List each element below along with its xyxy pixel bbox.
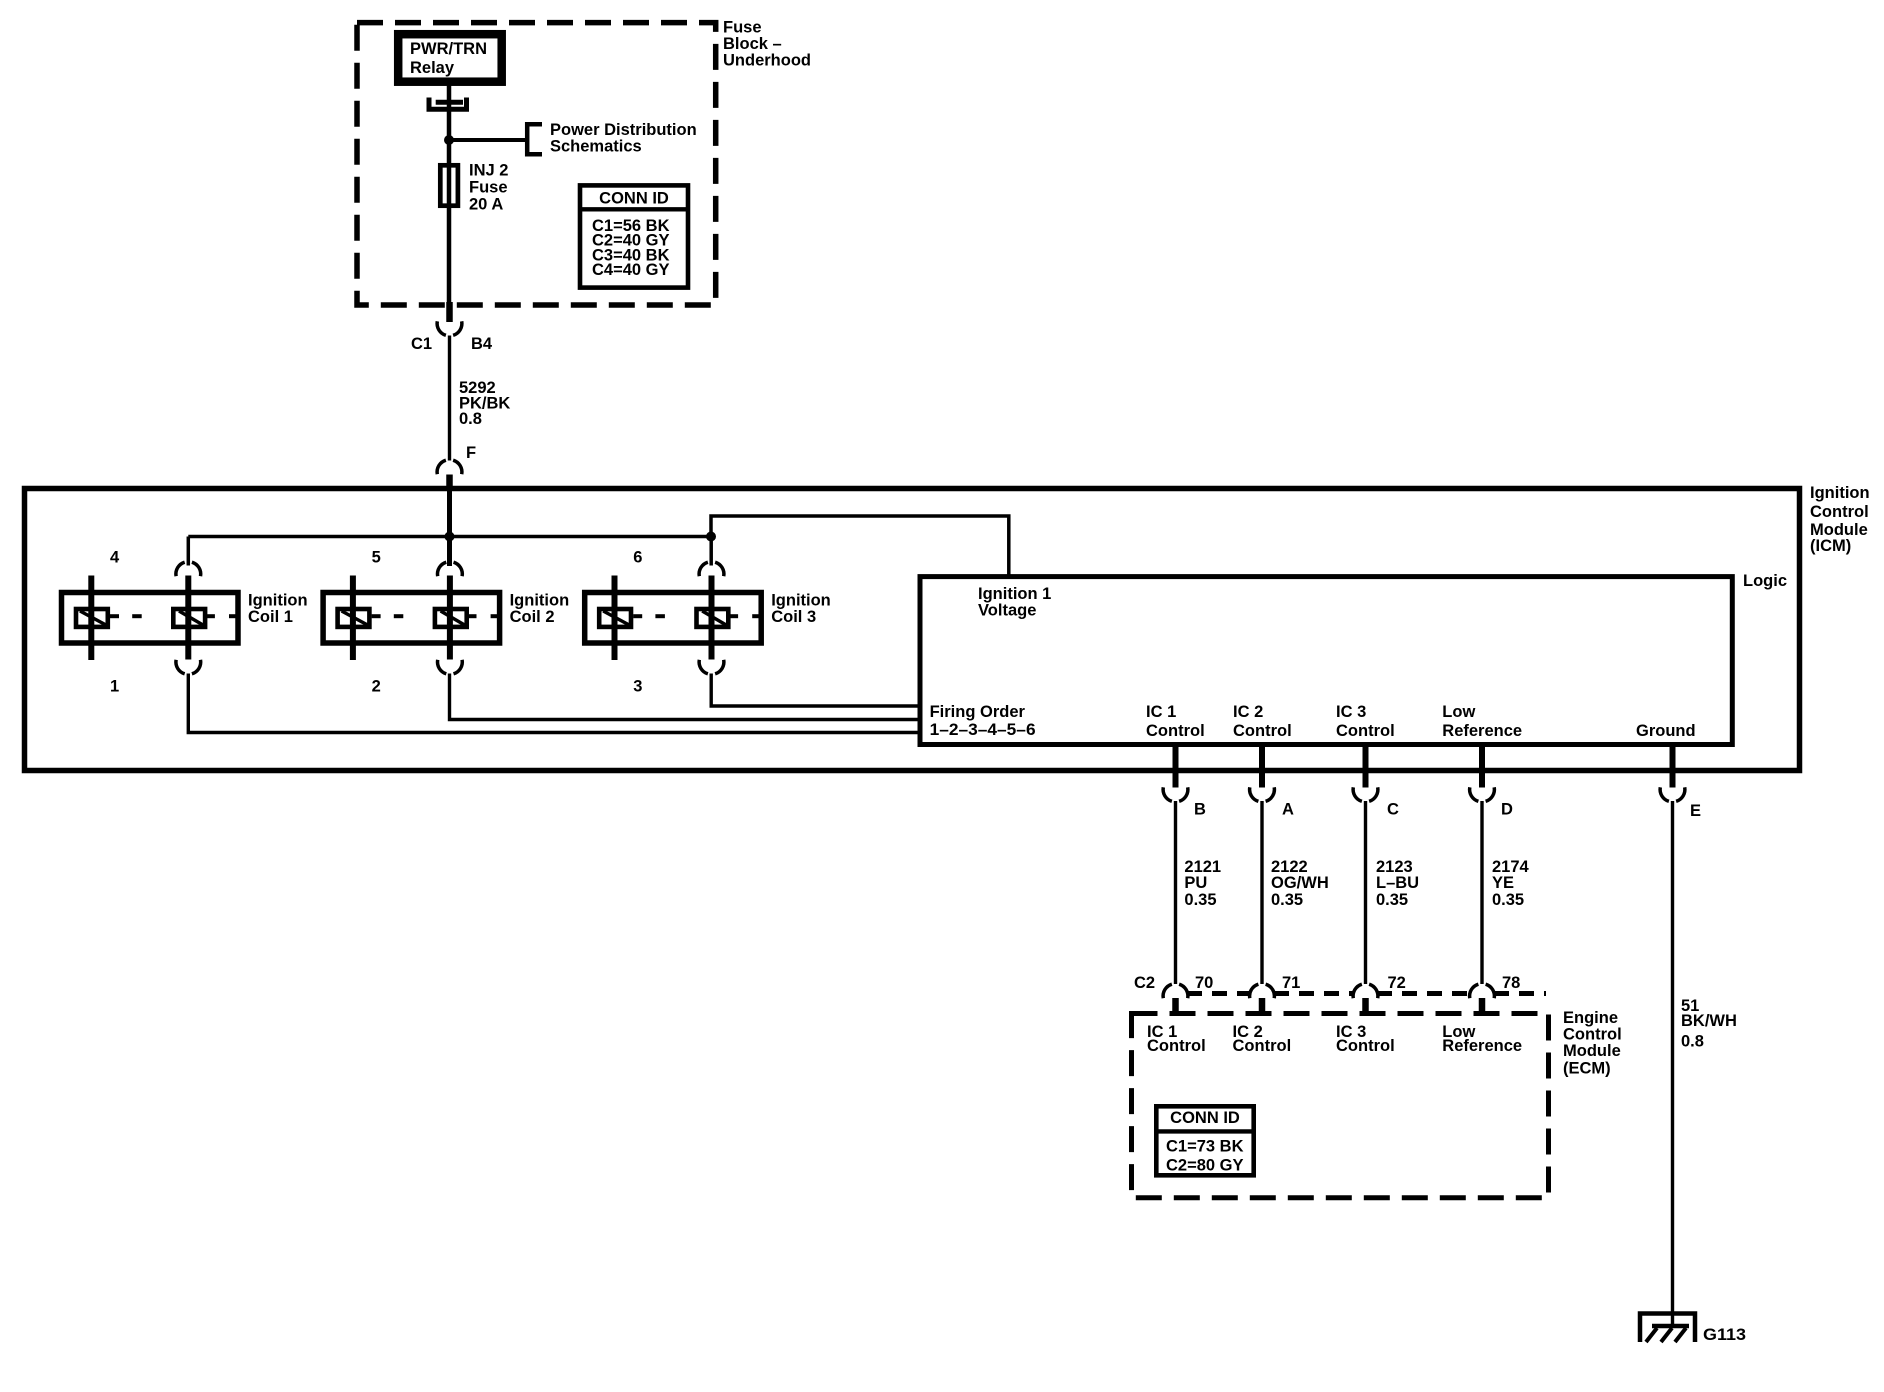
- coil 3 right pin terminal: [709, 576, 715, 660]
- coil 1 right pin terminal: [185, 576, 191, 660]
- connector C2 pin 70: [1163, 984, 1188, 998]
- node: junction at relay feed: [444, 135, 454, 145]
- svg-text:PWR/TRN: PWR/TRN: [410, 40, 487, 58]
- wire: ignition 1 voltage sense to logic: [711, 516, 1009, 577]
- svg-text:INJ 2: INJ 2: [469, 162, 508, 180]
- connector C2 pin 78: [1470, 984, 1495, 998]
- svg-text:F: F: [466, 444, 476, 462]
- ignition control module (ICM) enclosure: [25, 489, 1800, 771]
- svg-text:1: 1: [110, 678, 119, 696]
- wire: ignition feed inside ICM: [447, 486, 452, 566]
- svg-text:6: 6: [633, 549, 642, 567]
- svg-text:Control: Control: [1810, 503, 1869, 521]
- svg-text:Reference: Reference: [1442, 722, 1522, 740]
- node: feeder/bus junction: [445, 532, 455, 542]
- ground G113: [1640, 1314, 1695, 1343]
- wire: coil supply bus: [188, 535, 711, 538]
- svg-text:70: 70: [1195, 974, 1213, 992]
- off-page reference bracket: Power Distribution Schematics: [527, 124, 542, 154]
- svg-text:3: 3: [633, 678, 642, 696]
- connector pin E (ICM): [1670, 745, 1676, 788]
- wire: coil 2 to firing order: [450, 674, 921, 720]
- svg-text:IC 3: IC 3: [1336, 703, 1366, 721]
- wire: coil 1 to firing order: [188, 674, 920, 733]
- coil 2 left pin terminal: [350, 576, 356, 661]
- svg-text:Ignition: Ignition: [1810, 484, 1870, 502]
- svg-text:72: 72: [1388, 974, 1406, 992]
- svg-text:71: 71: [1282, 974, 1300, 992]
- relay K: PWR/TRN Relay: [398, 34, 502, 81]
- coil 2 top connector: [438, 562, 463, 576]
- wire 2123 L–BU 0.35: [1364, 801, 1367, 984]
- svg-text:0.8: 0.8: [1681, 1032, 1704, 1050]
- wire: relay to junction: [447, 82, 452, 140]
- coil 3 bottom connector: [699, 660, 724, 674]
- svg-text:YE: YE: [1492, 874, 1514, 892]
- coil 3 top connector: [699, 562, 724, 576]
- svg-text:Control: Control: [1147, 1037, 1206, 1055]
- coil 3 secondary winding: [697, 609, 729, 627]
- ignition coil 1: [62, 549, 308, 696]
- svg-text:2: 2: [372, 678, 381, 696]
- svg-text:Control: Control: [1336, 722, 1395, 740]
- wire: bus drop to coil 1: [187, 537, 191, 566]
- svg-text:C1=73 BK: C1=73 BK: [1166, 1138, 1244, 1156]
- connector C2 dashed link: [1187, 991, 1250, 996]
- svg-text:0.35: 0.35: [1376, 891, 1408, 909]
- svg-text:E: E: [1690, 802, 1701, 820]
- fuse INJ 2 20 A: [440, 165, 458, 205]
- svg-text:Schematics: Schematics: [550, 138, 642, 156]
- svg-text:Ignition: Ignition: [248, 592, 308, 610]
- svg-text:Low: Low: [1442, 703, 1475, 721]
- table: CONN ID (ECM): [1156, 1106, 1253, 1175]
- svg-text:C4=40 GY: C4=40 GY: [592, 261, 670, 279]
- wire 2174 YE 0.35: [1480, 801, 1483, 984]
- coil 1 bottom connector: [176, 660, 201, 674]
- svg-text:Coil 2: Coil 2: [510, 608, 555, 626]
- connector C1 pin B4 (fuse block output): [446, 302, 453, 322]
- coil 1 top connector: [176, 562, 201, 576]
- svg-text:Control: Control: [1233, 722, 1292, 740]
- wire 2122 OG/WH 0.35: [1260, 801, 1263, 984]
- svg-text:Logic: Logic: [1743, 572, 1787, 590]
- coil 1 body: [62, 593, 239, 644]
- wire: through fuse to C1: [447, 140, 452, 302]
- svg-text:CONN ID: CONN ID: [1170, 1109, 1240, 1127]
- connector pin B (ICM): [1173, 745, 1179, 788]
- svg-text:B: B: [1194, 801, 1206, 819]
- svg-text:Voltage: Voltage: [978, 602, 1036, 620]
- svg-text:G113: G113: [1703, 1326, 1746, 1344]
- wire 51 BK/WH 0.8 (ground): [1671, 801, 1674, 1326]
- svg-text:Reference: Reference: [1442, 1037, 1522, 1055]
- svg-text:IC 1: IC 1: [1146, 703, 1176, 721]
- svg-text:Fuse: Fuse: [469, 179, 508, 197]
- svg-text:Underhood: Underhood: [723, 52, 811, 70]
- svg-text:Coil 3: Coil 3: [771, 608, 816, 626]
- coil 1 left pin terminal: [88, 576, 94, 661]
- coil 2 body: [323, 593, 500, 644]
- svg-text:C2: C2: [1134, 974, 1155, 992]
- connector pin C (ICM): [1363, 745, 1369, 788]
- coil 1 secondary winding: [173, 609, 205, 627]
- svg-text:Relay: Relay: [410, 59, 455, 77]
- connector C2 pin 71: [1250, 984, 1275, 998]
- svg-text:Fuse: Fuse: [723, 19, 762, 37]
- relay output terminal (socket symbol): [427, 98, 470, 110]
- coil 2 core dash: [394, 614, 404, 618]
- svg-text:BK/WH: BK/WH: [1681, 1012, 1737, 1030]
- svg-text:Ground: Ground: [1636, 722, 1696, 740]
- fuse block - underhood enclosure (dashed): [357, 23, 716, 305]
- svg-text:4: 4: [110, 549, 120, 567]
- svg-text:Engine: Engine: [1563, 1009, 1618, 1027]
- svg-text:0.35: 0.35: [1492, 891, 1524, 909]
- coil 2 right pin terminal: [447, 576, 453, 660]
- table: CONN ID (fuse block): [580, 185, 688, 287]
- wire 2121 PU 0.35: [1174, 801, 1177, 984]
- svg-text:Ignition: Ignition: [510, 592, 570, 610]
- wire: branch to power distribution: [449, 138, 527, 142]
- svg-text:5: 5: [372, 549, 381, 567]
- svg-text:A: A: [1282, 801, 1294, 819]
- svg-text:Coil 1: Coil 1: [248, 608, 293, 626]
- svg-text:C2=80 GY: C2=80 GY: [1166, 1157, 1244, 1175]
- svg-text:Ignition: Ignition: [771, 592, 831, 610]
- svg-text:Ignition 1: Ignition 1: [978, 585, 1051, 603]
- svg-text:78: 78: [1502, 974, 1520, 992]
- svg-text:1–2–3–4–5–6: 1–2–3–4–5–6: [930, 721, 1036, 739]
- svg-text:C: C: [1387, 801, 1399, 819]
- svg-text:(ICM): (ICM): [1810, 537, 1851, 555]
- svg-text:B4: B4: [471, 335, 493, 353]
- svg-text:Control: Control: [1563, 1025, 1622, 1043]
- connector pin D (ICM): [1479, 745, 1485, 788]
- svg-text:Block –: Block –: [723, 35, 782, 53]
- coil 1 core dash: [132, 614, 142, 618]
- coil 2 primary winding: [338, 609, 370, 627]
- node: bus/voltage-sense junction: [706, 532, 716, 542]
- ignition coil 2: [323, 549, 569, 696]
- coil 1 primary winding: [76, 609, 108, 627]
- svg-text:D: D: [1501, 801, 1513, 819]
- connector C2 pin 72: [1353, 984, 1378, 998]
- svg-text:IC 2: IC 2: [1233, 703, 1263, 721]
- svg-text:(ECM): (ECM): [1563, 1060, 1611, 1078]
- coil 3 core dash: [655, 614, 665, 618]
- svg-text:Firing Order: Firing Order: [930, 703, 1026, 721]
- svg-text:Control: Control: [1146, 722, 1205, 740]
- wire 5292 PK/BK 0.8: [448, 336, 451, 461]
- svg-text:0.35: 0.35: [1271, 891, 1303, 909]
- svg-text:Power Distribution: Power Distribution: [550, 121, 697, 139]
- svg-text:CONN ID: CONN ID: [599, 189, 669, 207]
- ignition coil 3: [585, 549, 831, 696]
- wire: bus drop to coil 3: [709, 537, 713, 566]
- coil 3 left pin terminal: [612, 576, 618, 661]
- svg-text:Control: Control: [1336, 1037, 1395, 1055]
- svg-text:L–BU: L–BU: [1376, 874, 1419, 892]
- svg-text:20 A: 20 A: [469, 196, 503, 214]
- coil 3 body: [585, 593, 762, 644]
- svg-text:Module: Module: [1563, 1042, 1621, 1060]
- svg-text:0.35: 0.35: [1184, 891, 1216, 909]
- ICM logic block: [920, 577, 1732, 745]
- wire: coil 3 to firing order: [711, 674, 920, 707]
- coil 3 primary winding: [599, 609, 631, 627]
- svg-text:OG/WH: OG/WH: [1271, 874, 1329, 892]
- coil 2 bottom connector: [438, 660, 463, 674]
- engine control module (ECM) enclosure (dashed): [1132, 1014, 1549, 1198]
- svg-text:Control: Control: [1233, 1037, 1292, 1055]
- coil 2 secondary winding: [435, 609, 467, 627]
- svg-text:C1: C1: [411, 335, 432, 353]
- svg-text:0.8: 0.8: [459, 410, 482, 428]
- connector pin A (ICM): [1259, 745, 1265, 788]
- svg-text:PU: PU: [1184, 874, 1207, 892]
